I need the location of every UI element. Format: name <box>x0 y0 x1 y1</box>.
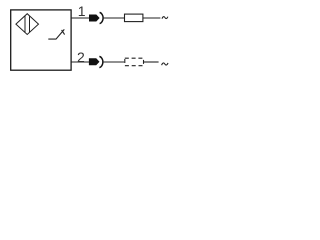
wire to AC source <box>143 17 161 19</box>
proximity sensor symbol: left bar of damping slab <box>24 16 26 33</box>
AC source tilde pin2 <box>162 63 168 65</box>
connector plug pin2 (filled) <box>89 58 100 65</box>
sensor box (proximity switch housing) <box>11 10 71 70</box>
alternative load resistor (dashed) <box>125 58 144 65</box>
wire pin2 from box <box>71 61 89 63</box>
wire pin2 to load <box>102 61 124 63</box>
svg-text:1: 1 <box>78 3 86 19</box>
proximity sensor symbol: right bar of damping slab <box>29 16 31 32</box>
wire pin1 from box <box>71 17 89 19</box>
load resistor R (solid) <box>125 14 143 22</box>
switch contact (NO output) <box>48 29 64 39</box>
connector socket arc pin1 <box>100 12 103 23</box>
connector socket arc pin2 <box>99 56 102 67</box>
connector plug pin1 (filled) <box>89 15 100 22</box>
AC source tilde pin1 <box>162 17 168 19</box>
svg-text:2: 2 <box>77 49 85 65</box>
wire pin1 to load <box>103 17 125 19</box>
proximity sensor symbol: diamond <box>16 14 39 35</box>
switch contact terminal tick <box>62 30 65 35</box>
wire to AC source pin2 <box>144 61 159 63</box>
